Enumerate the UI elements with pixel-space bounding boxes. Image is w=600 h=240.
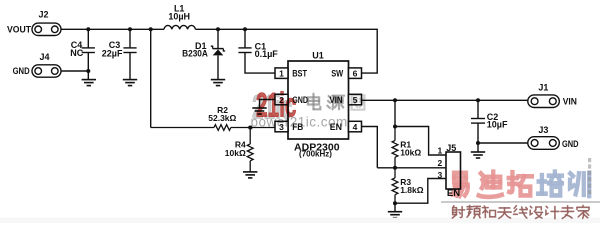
wire R3 bottom to ground	[394, 203, 396, 211]
pin box 2 GND	[275, 94, 288, 105]
svg-text:NC: NC	[70, 48, 83, 58]
svg-text:0.1µF: 0.1µF	[255, 49, 279, 59]
watermark char wang	[352, 95, 365, 109]
svg-text:B230A: B230A	[182, 49, 208, 59]
wire SW node from L1 to top-right corner down to SW pin	[195, 29, 377, 73]
node junction SW/D1	[216, 27, 220, 31]
diode D1 (schottky)	[211, 29, 225, 79]
pin box 6 SW	[349, 68, 362, 79]
WATERMARKS	[251, 86, 600, 218]
svg-text:BST: BST	[292, 68, 307, 78]
svg-text:J2: J2	[38, 10, 48, 20]
capacitor C4	[82, 29, 95, 79]
ground below R3	[388, 212, 402, 218]
resistor R1	[392, 127, 398, 168]
svg-text:power21ic.com: power21ic.com	[251, 115, 348, 130]
wire VIN tap to J5 pin1	[395, 100, 446, 155]
svg-text:10µF: 10µF	[487, 119, 508, 129]
node junction J4/C4	[86, 69, 90, 73]
svg-text:1: 1	[437, 145, 442, 155]
svg-text:SW: SW	[331, 68, 343, 78]
watermark logo char pei	[538, 172, 562, 196]
svg-text:VIN: VIN	[563, 97, 577, 107]
ground below D1	[211, 80, 225, 86]
node junction VIN/C2	[476, 98, 480, 102]
svg-text:U1: U1	[312, 51, 324, 61]
node junction R1 top/EN-J5 branch	[393, 125, 397, 129]
node junction VOUT/C3	[128, 27, 132, 31]
watermark tagline char she	[452, 206, 464, 218]
svg-text:VOUT: VOUT	[7, 24, 31, 34]
ground below R4	[243, 172, 257, 178]
capacitor C1 (BST)	[238, 29, 275, 73]
inductor L1	[164, 25, 195, 29]
wire divider mid node to J5 pin2	[377, 167, 446, 169]
svg-text:10kΩ: 10kΩ	[400, 147, 421, 157]
watermark logo char tuo	[509, 172, 532, 195]
faint bottom band	[0, 218, 600, 224]
wire FB tap vertical from VOUT rail	[150, 29, 152, 127]
connector J1	[528, 95, 560, 108]
capacitor C3	[123, 29, 136, 79]
node junction FB/R4	[248, 126, 252, 130]
svg-text:J1: J1	[538, 82, 548, 92]
svg-text:(700kHz): (700kHz)	[299, 150, 332, 159]
watermark tagline char ji	[546, 206, 559, 218]
node junction VIN/R1	[393, 98, 397, 102]
wire GND pin to ground	[260, 100, 276, 108]
svg-text:6: 6	[353, 68, 358, 78]
ground below C2	[471, 152, 485, 158]
node junction VOUT/FB-divider tap	[149, 27, 153, 31]
wire J5 pin3 to R3 bottom	[395, 179, 446, 204]
connector header J5	[446, 152, 461, 189]
resistor R4	[247, 128, 253, 172]
wire VOUT rail from J2 to L1	[61, 28, 164, 30]
wire C2 node to ground	[477, 143, 479, 152]
watermark tagline char jia	[577, 205, 589, 218]
ground below C4	[82, 80, 96, 86]
wire EN pin jog down to divider mid node	[362, 127, 378, 168]
wire J4 to C4 ground node	[61, 70, 88, 72]
watermark rule line	[441, 201, 600, 202]
node junction C2/J3	[476, 141, 480, 145]
ground at GND pin	[252, 108, 266, 114]
pin box 3 FB	[275, 121, 288, 132]
watermark tagline char he	[482, 206, 495, 217]
watermark tagline char xian	[514, 206, 528, 218]
capacitor C2	[471, 100, 485, 143]
svg-text:GND: GND	[562, 139, 579, 149]
watermark char dian	[308, 94, 320, 110]
svg-text:J4: J4	[39, 52, 49, 62]
svg-text:2: 2	[437, 158, 442, 168]
pin box 4 EN	[349, 121, 362, 132]
svg-text:1.8kΩ: 1.8kΩ	[400, 185, 424, 195]
watermark logo char di	[479, 172, 502, 197]
watermark tiny vertical text	[588, 158, 591, 194]
pin box 1 BST	[275, 68, 288, 79]
svg-text:GND: GND	[13, 66, 30, 76]
watermark tagline char tian	[498, 208, 511, 218]
resistor R2	[151, 125, 275, 131]
connector J4	[32, 65, 61, 77]
svg-text:1: 1	[279, 68, 284, 78]
svg-text:22µF: 22µF	[102, 48, 123, 58]
node junction R1/R3/EN	[393, 166, 397, 170]
IC U1 body	[288, 61, 349, 139]
pin box 5 VIN	[349, 94, 362, 105]
svg-text:10kΩ: 10kΩ	[225, 148, 246, 158]
wire J3 to C2 ground node	[478, 142, 528, 144]
watermark tagline char she2	[530, 206, 542, 218]
svg-text:3: 3	[437, 170, 442, 180]
wire VIN rail from pin5 to J1	[362, 99, 528, 101]
watermark tagline char pin	[467, 205, 480, 218]
svg-text:52.3kΩ: 52.3kΩ	[208, 113, 236, 123]
svg-text:10µH: 10µH	[168, 11, 190, 21]
svg-text:J3: J3	[538, 125, 548, 135]
svg-text:4: 4	[353, 122, 358, 132]
node junction VOUT/C4	[86, 27, 90, 31]
connector J3	[528, 137, 560, 150]
watermark char yuan	[327, 96, 344, 110]
svg-text:J5: J5	[446, 143, 456, 153]
resistor R3	[392, 168, 398, 203]
watermark tagline char zhuan	[561, 206, 574, 219]
connector J2	[32, 23, 61, 35]
ground below C3	[123, 80, 137, 86]
watermark logo char yi (easy)	[452, 173, 468, 196]
node junction R3 bottom/J5 pin3	[393, 201, 397, 205]
node junction SW/C1	[243, 27, 247, 31]
watermark logo char xun	[570, 173, 589, 196]
